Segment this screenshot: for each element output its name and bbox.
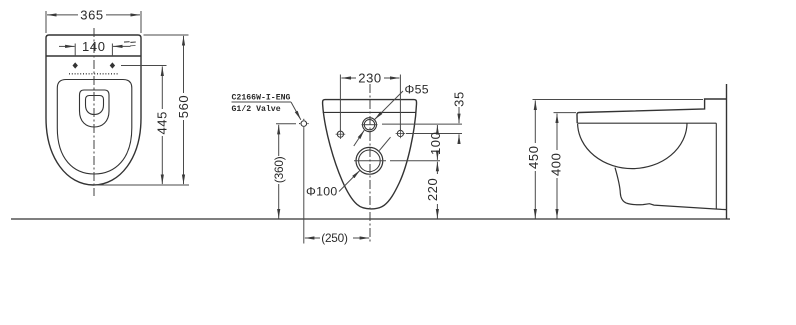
dim 35 ext lines — [382, 124, 462, 133]
dim 140 ticks — [75, 44, 112, 57]
svg-text:400: 400 — [548, 153, 563, 177]
dim 220 line — [436, 162, 438, 174]
bolt hole left (diamond) — [73, 62, 78, 68]
band second line — [323, 111, 417, 113]
seat inner line — [577, 122, 716, 124]
water surface inner — [86, 96, 104, 115]
dim (250) line — [305, 237, 369, 239]
svg-text:230: 230 — [358, 70, 382, 85]
dim 445 line — [161, 66, 163, 184]
bolt hole right circle — [397, 130, 403, 136]
dim 230 ext lines — [340, 75, 400, 132]
ext line phi100 to dims — [390, 160, 440, 162]
svg-text:(360): (360) — [272, 156, 286, 183]
svg-text:G1/2 Valve: G1/2 Valve — [232, 104, 281, 114]
svg-text:365: 365 — [80, 7, 104, 22]
svg-text:220: 220 — [425, 178, 440, 202]
phi55 crosshair — [362, 124, 378, 126]
back shape outline — [323, 100, 417, 209]
phi55 leader tail — [354, 130, 365, 146]
wall line — [726, 84, 728, 219]
dim 450 ext line — [533, 99, 704, 101]
phi55 leader — [375, 91, 403, 120]
dim 400 line — [556, 114, 558, 219]
valve drop line — [303, 129, 305, 244]
side profile top — [577, 99, 727, 123]
seat hinge dotted line — [69, 73, 119, 75]
dim 400 ext line — [554, 112, 577, 114]
phi100 leader tail — [379, 137, 390, 150]
seat outline — [57, 80, 132, 175]
dim 560 line — [183, 36, 185, 184]
svg-text:C2166W-I-ENG: C2166W-I-ENG — [232, 94, 291, 103]
trap outline — [615, 168, 727, 210]
centerline middle view — [369, 84, 371, 244]
outlet circle phi100 inner — [359, 150, 381, 172]
dim 450 line — [534, 100, 536, 218]
inlet circle phi55 inner — [364, 120, 374, 130]
bolt hole left circle — [337, 131, 343, 137]
bowl arc — [578, 123, 687, 168]
dim 100 line — [436, 125, 438, 131]
svg-text:100: 100 — [428, 132, 443, 156]
toilet body outline (top view) — [46, 35, 141, 185]
svg-text:Φ55: Φ55 — [405, 83, 429, 97]
svg-text:445: 445 — [155, 111, 170, 135]
dim 365 line — [47, 14, 140, 16]
svg-text:450: 450 — [526, 145, 541, 169]
tank top mark — [124, 42, 136, 46]
dim 35 arrows — [458, 107, 460, 123]
dim 140 arrows — [59, 45, 75, 47]
inner rect right edge — [715, 123, 717, 209]
svg-text:Φ100: Φ100 — [306, 185, 338, 199]
inlet circle phi55 outer — [363, 118, 377, 132]
svg-text:560: 560 — [176, 95, 191, 119]
dim 365 extension lines — [46, 11, 141, 33]
ext line top to 560 — [144, 34, 189, 36]
ext line bottom — [94, 184, 189, 186]
dim (360) ext — [276, 123, 296, 125]
label underline — [232, 101, 292, 103]
tank band bottom line — [46, 55, 141, 57]
svg-text:(250): (250) — [321, 231, 348, 245]
bolt cross left — [336, 129, 406, 139]
svg-text:140: 140 — [82, 39, 106, 54]
svg-text:35: 35 — [451, 91, 466, 107]
ext line bolt to 445 — [121, 65, 167, 67]
centerline left view — [93, 28, 95, 196]
phi100 crosshair — [354, 160, 386, 162]
bowl opening outer — [80, 90, 110, 127]
valve leader — [291, 102, 301, 120]
bolt hole right (diamond) — [110, 62, 115, 68]
dim (360) line — [278, 125, 280, 219]
dim 230 line — [341, 77, 399, 79]
phi100 leader — [339, 170, 360, 191]
valve symbol — [299, 119, 309, 129]
outlet circle phi100 outer — [356, 147, 383, 174]
